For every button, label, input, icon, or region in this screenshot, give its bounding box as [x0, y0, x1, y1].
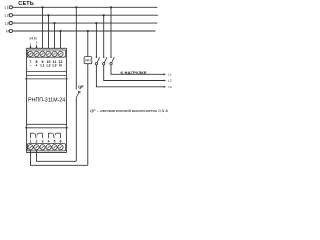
pin number 4	[48, 140, 50, 144]
screw terminal 7	[28, 51, 33, 56]
pin label minus	[30, 63, 32, 67]
label load L2	[168, 79, 172, 83]
device name РНПП-311М-24	[28, 97, 65, 103]
screw terminal 11	[52, 51, 57, 56]
relay contact K1	[31, 133, 43, 138]
wire drop L2 to pin 10	[48, 15, 50, 50]
wire coil MP to relay pin 1	[31, 150, 88, 166]
wire L1 horizontal	[12, 6, 157, 8]
label QF	[78, 84, 84, 89]
screw terminal 3	[40, 145, 45, 150]
pin label N	[59, 63, 62, 67]
svg-text:L2: L2	[47, 63, 51, 67]
svg-text:L3: L3	[5, 22, 9, 26]
relay contact K2	[49, 133, 61, 138]
label plus	[36, 41, 38, 45]
junction L2 to pin 10	[47, 14, 49, 16]
wire pole 3 to load L1	[111, 65, 165, 74]
junction L1 to contactor pole 3	[110, 6, 112, 8]
contactor coil МП	[84, 57, 92, 64]
svg-text:QF: QF	[78, 84, 84, 89]
svg-text:L1: L1	[5, 6, 9, 10]
junction L3 to contactor pole 1	[95, 22, 97, 24]
wire QF to relay pin 2	[37, 150, 77, 162]
arrowhead load L2	[164, 80, 167, 82]
label minus	[29, 41, 31, 45]
arrow supply minus to pin 7	[30, 45, 32, 50]
wire L3 down to pole 1	[95, 23, 97, 57]
pin number 9	[42, 60, 44, 64]
svg-text:6: 6	[60, 140, 62, 144]
wire pole 2 to load L2	[104, 65, 165, 81]
svg-text:L2: L2	[168, 79, 172, 83]
svg-text:L3: L3	[53, 63, 57, 67]
screw terminal 2	[34, 145, 39, 150]
wire drop L1 to pin 9	[42, 7, 44, 50]
terminal circle L3	[9, 22, 12, 25]
svg-text:СЕТЬ: СЕТЬ	[18, 1, 34, 7]
terminal circle L1	[9, 6, 12, 9]
svg-text:5: 5	[54, 140, 56, 144]
svg-text:К НАГРУЗКЕ: К НАГРУЗКЕ	[121, 70, 147, 75]
wire pole 1 to load L3	[96, 65, 164, 87]
junction L1 to pin 9	[41, 6, 43, 8]
pin number 3	[42, 140, 44, 144]
svg-text:L3: L3	[168, 85, 172, 89]
junction N to pin 12	[59, 30, 61, 32]
svg-text:L1: L1	[168, 72, 172, 76]
node L3 label	[5, 22, 9, 26]
svg-text:МП: МП	[85, 59, 91, 63]
screw terminal 4	[46, 145, 51, 150]
device top flange line	[25, 78, 68, 80]
terminal circle L2	[9, 14, 12, 17]
wire drop N to pin 12	[60, 31, 62, 51]
arrowhead load L3	[164, 86, 167, 88]
breaker QF	[76, 91, 80, 98]
contactor pole 1	[95, 56, 99, 65]
wire N horizontal	[12, 30, 155, 32]
arrowhead load L1	[164, 73, 167, 75]
pin number 7	[30, 60, 32, 64]
wire L2 down to pole 2	[103, 15, 105, 57]
pin label L1	[41, 63, 45, 67]
screw terminal 6	[58, 145, 63, 150]
node L2 label	[5, 14, 9, 18]
note QF description	[90, 109, 168, 113]
wire L1 down to pole 3	[110, 7, 112, 57]
pin number 12	[59, 60, 63, 64]
svg-text:L1: L1	[41, 63, 45, 67]
wire L3 horizontal	[12, 22, 157, 24]
wire L1 down to QF	[75, 7, 77, 89]
svg-text:24 В: 24 В	[29, 37, 37, 41]
svg-text:2: 2	[36, 140, 38, 144]
net label СЕТЬ	[18, 1, 34, 7]
wire N down to coil MP	[87, 31, 89, 57]
svg-text:N: N	[6, 29, 9, 33]
contactor pole 3	[110, 56, 114, 65]
bottom terminal block	[27, 144, 65, 151]
node N label	[6, 29, 9, 33]
svg-text:L2: L2	[5, 14, 9, 18]
device bottom flange line	[25, 127, 68, 129]
junction L2 to contactor pole 2	[103, 14, 105, 16]
svg-text:4: 4	[48, 140, 50, 144]
screw terminal 12	[58, 51, 63, 56]
pin number 6	[60, 140, 62, 144]
device bottom step line	[27, 123, 67, 125]
device top step line	[27, 75, 67, 77]
screw terminal 5	[52, 145, 57, 150]
device label section line	[27, 71, 67, 73]
contactor pole 2	[103, 56, 107, 65]
label 24 В supply	[29, 37, 37, 41]
junction N to contactor coil MP	[87, 30, 89, 32]
pin number 11	[53, 60, 57, 64]
arrow supply plus to pin 8	[36, 45, 38, 50]
svg-text:+: +	[36, 63, 38, 67]
wire QF down	[75, 98, 77, 162]
svg-text:3: 3	[42, 140, 44, 144]
svg-text:РНПП-311М-24: РНПП-311М-24	[28, 97, 65, 103]
pin number 10	[47, 60, 51, 64]
top terminal block	[27, 50, 65, 57]
junction L3 to pin 11	[53, 22, 55, 24]
pin label L3	[53, 63, 57, 67]
wire drop L3 to pin 11	[54, 23, 56, 50]
wire L2 horizontal	[12, 14, 158, 16]
pin label L2	[47, 63, 51, 67]
screw terminal 10	[46, 51, 51, 56]
label К НАГРУЗКЕ	[121, 70, 147, 75]
pin number 2	[36, 140, 38, 144]
junction L1 to QF	[75, 6, 77, 8]
label load L1	[168, 72, 172, 76]
pin number 5	[54, 140, 56, 144]
wire coil MP down	[87, 64, 89, 166]
screw terminal 8	[34, 51, 39, 56]
svg-text:–: –	[30, 63, 32, 67]
terminal circle N	[9, 29, 12, 32]
screw terminal 1	[28, 145, 33, 150]
node L1 label	[5, 6, 9, 10]
screw terminal 9	[40, 51, 45, 56]
device U1 РНПП-311М-24 body	[27, 48, 67, 152]
pin label plus	[36, 63, 38, 67]
svg-text:QF – автоматический выключат: QF – автоматический выключатель 0,5 А	[90, 109, 168, 113]
pin number 1	[30, 140, 32, 144]
pin number 8	[36, 60, 38, 64]
svg-text:1: 1	[30, 140, 32, 144]
label load L3	[168, 85, 172, 89]
